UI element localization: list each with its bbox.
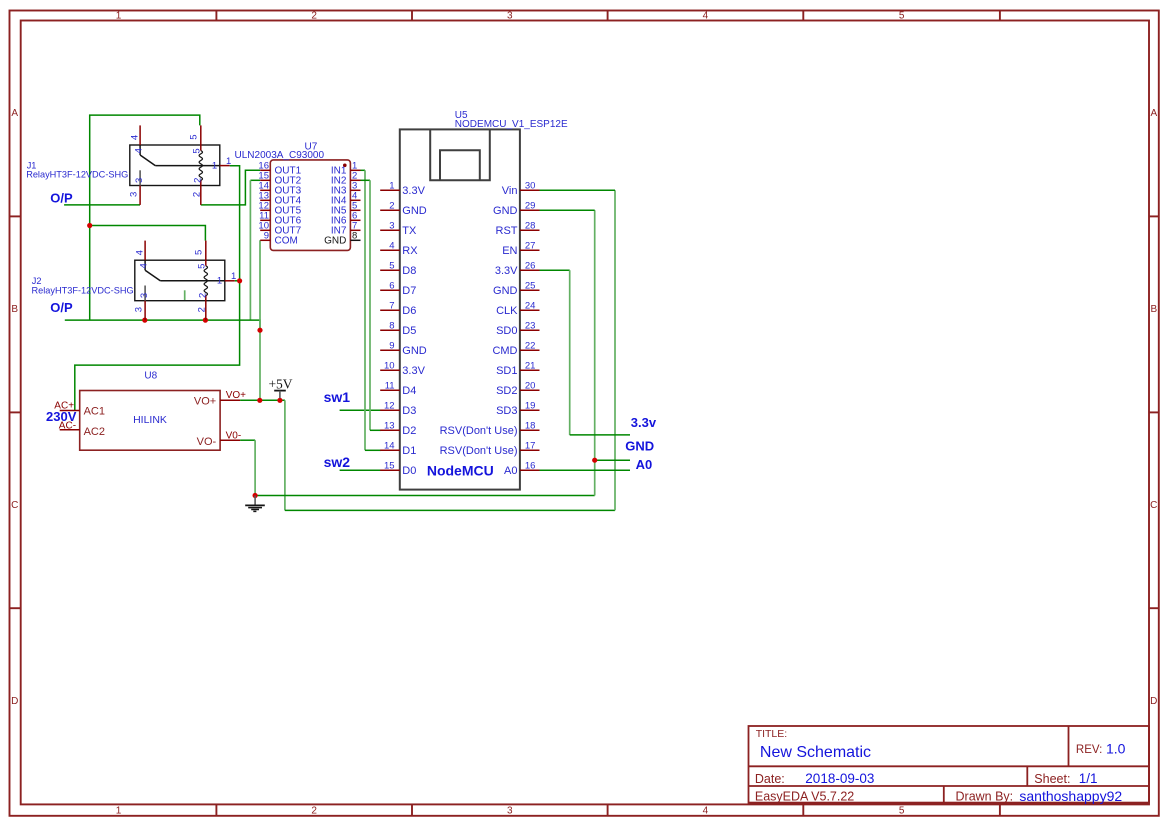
relay J1 pin 2 xyxy=(192,178,204,205)
svg-text:5: 5 xyxy=(196,264,207,269)
svg-text:RSV(Don't Use): RSV(Don't Use) xyxy=(440,425,518,437)
svg-text:4: 4 xyxy=(130,135,141,140)
wire GND net VO- to ground and NodeMCU GND pin29 xyxy=(240,439,255,441)
svg-text:1/1: 1/1 xyxy=(1079,771,1098,786)
svg-text:GND: GND xyxy=(625,438,654,453)
svg-text:GND: GND xyxy=(493,285,518,297)
svg-text:SD0: SD0 xyxy=(496,325,517,337)
svg-text:3: 3 xyxy=(507,806,513,817)
U5 pin 10 (3.3V) xyxy=(380,361,425,377)
svg-text:7: 7 xyxy=(389,301,394,312)
svg-text:3: 3 xyxy=(139,293,150,298)
wire stub inside J2 xyxy=(184,290,186,300)
svg-text:C: C xyxy=(11,500,18,511)
svg-text:D: D xyxy=(11,696,18,707)
U5 pin 27 (EN) xyxy=(502,241,539,257)
relay J2 pin 1 xyxy=(217,271,236,286)
wire J1 pin1 down-left to U8 AC1 xyxy=(75,166,240,411)
relay J1 pin 4 xyxy=(130,125,145,153)
wire branch to J2 pin5 xyxy=(90,226,206,241)
junction ground xyxy=(253,493,258,498)
U8 pin AC2 xyxy=(59,420,80,431)
svg-text:+5V: +5V xyxy=(268,377,292,392)
relay J1 pin 3 xyxy=(129,178,145,205)
svg-text:2: 2 xyxy=(198,293,209,298)
svg-text:28: 28 xyxy=(525,221,536,232)
module U8 HILINK body xyxy=(80,371,220,451)
svg-text:sw2: sw2 xyxy=(324,454,351,470)
U7 pin 10 (OUT7) xyxy=(258,221,301,237)
svg-text:HILINK: HILINK xyxy=(133,414,167,426)
U7 pin 15 (OUT2) xyxy=(258,171,301,187)
junction +5V xyxy=(277,398,282,403)
svg-text:GND: GND xyxy=(493,205,518,217)
junction J2 pin5 branch xyxy=(87,223,92,228)
svg-text:10: 10 xyxy=(384,361,395,372)
svg-text:3.3V: 3.3V xyxy=(495,265,518,277)
svg-text:22: 22 xyxy=(525,341,536,352)
svg-text:TITLE:: TITLE: xyxy=(756,728,788,740)
U5 pin 15 (D0) xyxy=(380,461,416,477)
U5 pin 22 (CMD) xyxy=(492,341,539,357)
U5 pin 19 (SD3) xyxy=(496,401,539,417)
U5 pin 18 (RSV(Don't Use)) xyxy=(440,421,540,437)
svg-text:A0: A0 xyxy=(504,465,517,477)
U5 pin 16 (A0) xyxy=(504,461,539,477)
U5 pin 9 (GND) xyxy=(380,341,427,357)
wire GND label stub xyxy=(595,459,630,461)
svg-text:3: 3 xyxy=(389,221,394,232)
U5 pin 5 (D8) xyxy=(380,261,416,277)
svg-text:29: 29 xyxy=(525,201,536,212)
U5 pin 8 (D5) xyxy=(380,321,416,337)
junction VO+ COM xyxy=(257,398,262,403)
svg-text:J2: J2 xyxy=(32,276,42,286)
svg-text:A: A xyxy=(1150,108,1157,119)
U5 pin 24 (CLK) xyxy=(496,301,539,317)
svg-text:D6: D6 xyxy=(402,305,416,317)
svg-text:4: 4 xyxy=(389,241,394,252)
svg-text:19: 19 xyxy=(525,401,536,412)
svg-text:2018-09-03: 2018-09-03 xyxy=(805,771,874,786)
U7 pin 16 (OUT1) xyxy=(258,161,301,177)
svg-text:SD3: SD3 xyxy=(496,405,517,417)
svg-text:4: 4 xyxy=(138,263,149,268)
wire J2 pin1 stub xyxy=(235,280,240,282)
svg-text:3: 3 xyxy=(134,178,145,183)
svg-text:NodeMCU: NodeMCU xyxy=(427,463,494,479)
svg-text:D5: D5 xyxy=(402,325,416,337)
U5 pin 14 (D1) xyxy=(380,441,416,457)
U8 pin AC1 xyxy=(54,400,79,411)
relay J2 pin 2 xyxy=(197,293,209,320)
U7 pin 2 (IN2) xyxy=(331,171,361,187)
U5 pin 30 (Vin) xyxy=(502,181,540,197)
svg-text:18: 18 xyxy=(525,421,536,432)
ground symbol xyxy=(245,496,265,512)
junction COM rail xyxy=(257,328,262,333)
U7 pin 1 (IN1) xyxy=(331,161,361,177)
U7 pin 13 (OUT4) xyxy=(258,191,301,207)
svg-text:Drawn By:: Drawn By: xyxy=(956,789,1014,803)
svg-text:VO+: VO+ xyxy=(226,390,246,401)
ic U7 ULN2003A_C93000 body xyxy=(235,141,351,250)
relay J2 pin 5 xyxy=(194,241,208,269)
svg-text:D: D xyxy=(1150,696,1157,707)
wire sw2 to D0 xyxy=(340,469,381,471)
svg-text:24: 24 xyxy=(525,301,536,312)
svg-text:5: 5 xyxy=(191,148,202,153)
junction GND label xyxy=(592,458,597,463)
svg-text:2: 2 xyxy=(193,178,204,183)
wire J1 pin5 to J2 pin5 loop (left) xyxy=(90,115,200,320)
svg-text:D7: D7 xyxy=(402,285,416,297)
relay J1 reference labels xyxy=(26,160,128,179)
svg-text:A0: A0 xyxy=(636,457,653,472)
svg-text:1: 1 xyxy=(226,156,231,167)
svg-text:4: 4 xyxy=(133,148,144,153)
U5 pin 23 (SD0) xyxy=(496,321,539,337)
svg-text:1: 1 xyxy=(116,11,122,22)
svg-text:6: 6 xyxy=(389,281,394,292)
junction J2 pin1 xyxy=(237,278,242,283)
U8 pin VO- xyxy=(220,431,241,442)
svg-text:11: 11 xyxy=(385,381,395,392)
svg-text:GND: GND xyxy=(324,236,346,247)
svg-text:26: 26 xyxy=(525,261,536,272)
svg-text:3: 3 xyxy=(129,192,140,197)
svg-text:O/P: O/P xyxy=(50,300,73,315)
svg-text:TX: TX xyxy=(402,225,417,237)
svg-text:V0-: V0- xyxy=(226,431,242,442)
U5 pin 13 (D2) xyxy=(380,421,416,437)
svg-text:8: 8 xyxy=(389,321,394,332)
svg-text:D4: D4 xyxy=(402,385,416,397)
U7 pin 3 (IN3) xyxy=(331,181,361,197)
svg-text:2: 2 xyxy=(311,11,317,22)
svg-text:5: 5 xyxy=(194,250,205,255)
U7 pin 6 (IN6) xyxy=(331,211,361,227)
U7 pin 7 (IN7) xyxy=(331,221,361,237)
relay J2 reference labels xyxy=(32,276,134,296)
wire sw1 to D3 xyxy=(340,409,381,411)
svg-text:C: C xyxy=(1150,500,1157,511)
svg-text:D1: D1 xyxy=(402,445,416,457)
U7 pin 8 (GND) xyxy=(324,231,360,247)
svg-text:EN: EN xyxy=(502,245,517,257)
power +5V symbol xyxy=(268,377,292,399)
svg-text:1.0: 1.0 xyxy=(1106,741,1126,757)
svg-text:santhoshappy92: santhoshappy92 xyxy=(1019,788,1122,804)
U5 pin 20 (SD2) xyxy=(496,381,539,397)
svg-text:D0: D0 xyxy=(402,465,416,477)
svg-text:9: 9 xyxy=(264,231,269,242)
svg-text:27: 27 xyxy=(525,241,536,252)
junction J2 pin3 xyxy=(142,318,147,323)
svg-text:D3: D3 xyxy=(402,405,416,417)
svg-text:8: 8 xyxy=(352,231,357,242)
svg-text:20: 20 xyxy=(525,381,536,392)
U5 pin 7 (D6) xyxy=(380,301,416,317)
svg-text:CMD: CMD xyxy=(492,345,517,357)
U7 pin 4 (IN4) xyxy=(331,191,361,207)
relay J1 pin 5 xyxy=(189,125,203,153)
svg-text:AC1: AC1 xyxy=(84,406,105,418)
svg-text:1: 1 xyxy=(212,160,217,171)
wire +5V rail VO+ to NodeMCU Vin xyxy=(240,399,285,401)
U5 pin 3 (TX) xyxy=(380,221,417,237)
svg-text:GND: GND xyxy=(402,345,427,357)
U5 pin 6 (D7) xyxy=(380,281,416,297)
svg-text:5: 5 xyxy=(899,806,905,817)
wire 3.3v net from pin26 xyxy=(540,269,570,271)
svg-text:New Schematic: New Schematic xyxy=(760,744,871,761)
svg-text:5: 5 xyxy=(189,134,200,139)
wire U7 IN2 to NodeMCU D2 xyxy=(361,179,371,181)
svg-text:ULN2003A_C93000: ULN2003A_C93000 xyxy=(235,150,325,161)
svg-text:RX: RX xyxy=(402,245,418,257)
svg-text:230V: 230V xyxy=(46,409,77,424)
U5 pin 11 (D4) xyxy=(380,381,416,397)
svg-text:B: B xyxy=(11,304,18,315)
U5 pin 17 (RSV(Don't Use)) xyxy=(440,441,540,457)
svg-text:RelayHT3F-12VDC-SHG: RelayHT3F-12VDC-SHG xyxy=(32,286,134,296)
svg-text:COM: COM xyxy=(275,236,298,247)
U5 pin 29 (GND) xyxy=(493,201,539,217)
svg-text:Sheet:: Sheet: xyxy=(1034,772,1070,786)
U5 pin 25 (GND) xyxy=(493,281,539,297)
U5 pin 26 (3.3V) xyxy=(495,261,540,277)
U5 pin 1 (3.3V) xyxy=(380,181,425,197)
module U5 NODEMCU_V1_ESP12E body xyxy=(400,110,568,490)
U5 pin 21 (SD1) xyxy=(496,361,539,377)
U5 pin 12 (D3) xyxy=(380,401,416,417)
svg-text:3.3V: 3.3V xyxy=(402,185,425,197)
svg-text:SD1: SD1 xyxy=(496,365,517,377)
relay J2 pin 3 xyxy=(134,293,150,320)
wire A0 net from pin16 xyxy=(540,469,631,471)
svg-text:2: 2 xyxy=(192,192,203,197)
svg-text:NODEMCU_V1_ESP12E: NODEMCU_V1_ESP12E xyxy=(455,119,568,130)
svg-text:9: 9 xyxy=(389,341,394,352)
svg-text:B: B xyxy=(1150,304,1157,315)
junction J2 pin2 xyxy=(203,318,208,323)
svg-text:2: 2 xyxy=(389,201,394,212)
U7 pin 5 (IN5) xyxy=(331,201,361,217)
svg-text:VO-: VO- xyxy=(197,436,217,448)
relay J1 pin 1 xyxy=(212,156,231,171)
U8 pin VO+ xyxy=(220,390,246,401)
U7 pin 11 (OUT6) xyxy=(259,211,301,227)
svg-text:AC2: AC2 xyxy=(84,426,105,438)
svg-text:GND: GND xyxy=(402,205,427,217)
svg-text:RelayHT3F-12VDC-SHG: RelayHT3F-12VDC-SHG xyxy=(26,170,128,180)
svg-text:REV:: REV: xyxy=(1076,744,1102,756)
svg-text:3.3V: 3.3V xyxy=(402,365,425,377)
svg-text:14: 14 xyxy=(384,441,395,452)
svg-text:2: 2 xyxy=(311,806,317,817)
svg-text:D8: D8 xyxy=(402,265,416,277)
wire J1 pin2 to U7 OUT1 xyxy=(201,170,260,205)
svg-text:12: 12 xyxy=(384,401,395,412)
svg-text:2: 2 xyxy=(197,307,208,312)
svg-text:13: 13 xyxy=(384,421,395,432)
svg-text:17: 17 xyxy=(525,441,536,452)
svg-text:SD2: SD2 xyxy=(496,385,517,397)
title block xyxy=(749,726,1150,804)
svg-text:5: 5 xyxy=(899,11,905,22)
svg-text:1: 1 xyxy=(231,271,236,282)
svg-text:4: 4 xyxy=(135,250,146,255)
relay J2 body xyxy=(135,260,225,301)
U5 pin 2 (GND) xyxy=(380,201,427,217)
svg-text:sw1: sw1 xyxy=(324,389,351,405)
svg-text:1: 1 xyxy=(389,181,394,192)
relay J2 pin 4 xyxy=(135,241,150,269)
wire O/P net J2 horizontal xyxy=(65,320,260,330)
svg-text:U8: U8 xyxy=(144,371,157,382)
U7 pin 12 (OUT5) xyxy=(258,201,301,217)
svg-text:1: 1 xyxy=(116,806,122,817)
svg-text:RST: RST xyxy=(496,225,518,237)
svg-text:Date:: Date: xyxy=(755,772,785,786)
svg-text:21: 21 xyxy=(525,361,536,372)
wire U7 COM down to +5V rail xyxy=(259,240,261,400)
svg-text:3: 3 xyxy=(507,11,513,22)
svg-text:25: 25 xyxy=(525,281,536,292)
svg-text:30: 30 xyxy=(525,181,536,192)
svg-text:EasyEDA V5.7.22: EasyEDA V5.7.22 xyxy=(755,789,854,803)
svg-text:4: 4 xyxy=(703,806,709,817)
svg-text:5: 5 xyxy=(389,261,394,272)
svg-text:Vin: Vin xyxy=(502,185,518,197)
svg-text:VO+: VO+ xyxy=(194,395,216,407)
svg-text:3: 3 xyxy=(134,307,145,312)
wire U7 OUT2 down xyxy=(250,179,260,181)
svg-text:CLK: CLK xyxy=(496,305,518,317)
svg-text:RSV(Don't Use): RSV(Don't Use) xyxy=(440,445,518,457)
U7 pin 14 (OUT3) xyxy=(258,181,301,197)
U5 pin 28 (RST) xyxy=(496,221,540,237)
relay J1 body xyxy=(130,145,220,186)
svg-text:1: 1 xyxy=(217,276,222,287)
U5 pin 4 (RX) xyxy=(380,241,418,257)
svg-text:D2: D2 xyxy=(402,425,416,437)
svg-text:A: A xyxy=(11,108,18,119)
svg-text:O/P: O/P xyxy=(50,190,73,205)
wire O/P net J1 pin3 xyxy=(64,204,140,206)
svg-text:23: 23 xyxy=(525,321,536,332)
svg-text:3.3v: 3.3v xyxy=(631,415,657,430)
svg-text:16: 16 xyxy=(525,461,536,472)
svg-text:4: 4 xyxy=(703,11,709,22)
svg-text:15: 15 xyxy=(384,461,395,472)
wire U7 IN1 to NodeMCU D1 xyxy=(361,169,366,171)
U7 pin 9 (COM) xyxy=(260,231,298,247)
